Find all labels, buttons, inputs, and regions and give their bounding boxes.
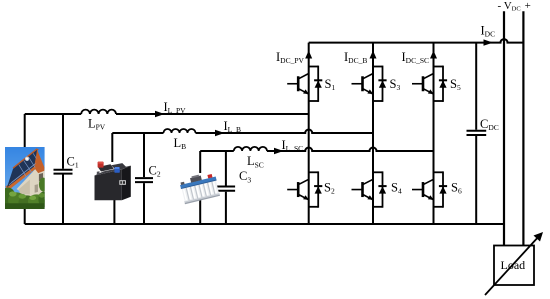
- svg-text:IDC: IDC: [481, 23, 496, 38]
- svg-text:S5: S5: [450, 77, 461, 92]
- wire left PV vertical: [24, 114, 26, 224]
- inductor L_B: [164, 129, 196, 133]
- svg-text:S1: S1: [325, 77, 336, 92]
- battery photo: [95, 162, 131, 201]
- svg-text:IDC_B: IDC_B: [344, 50, 367, 65]
- arrow I_L_SC: [274, 148, 284, 154]
- svg-text:CDC: CDC: [480, 117, 499, 132]
- wire PV top line: [25, 113, 309, 115]
- inductor L_SC: [234, 147, 267, 151]
- wire leg 2: [372, 43, 374, 224]
- svg-text:C1: C1: [67, 155, 79, 170]
- PV panel photo: [0, 147, 49, 209]
- wire leg 1: [308, 43, 310, 224]
- wire top bus: [309, 39, 524, 43]
- wire supercap top: [199, 151, 201, 173]
- transistor S1: [287, 66, 322, 102]
- arrow I_L_B: [215, 130, 225, 136]
- svg-text:Load: Load: [501, 258, 526, 272]
- svg-text:S3: S3: [390, 77, 401, 92]
- inductor L_PV: [81, 110, 116, 114]
- svg-text:S4: S4: [391, 181, 402, 196]
- arrow I_L_PV: [155, 111, 165, 117]
- svg-text:LSC: LSC: [247, 154, 264, 169]
- wire DC- rail: [503, 11, 505, 245]
- svg-text:IL_PV: IL_PV: [164, 100, 187, 115]
- transistor S4: [352, 171, 387, 207]
- wire bottom bus: [25, 223, 504, 225]
- wire DC+ rail: [522, 11, 524, 245]
- svg-text:LB: LB: [174, 136, 187, 151]
- svg-text:LPV: LPV: [88, 117, 106, 132]
- capacitor C_DC branch wire: [475, 43, 477, 224]
- svg-text:C2: C2: [149, 163, 161, 178]
- transistor S2: [287, 171, 322, 207]
- capacitor C1 branch wire: [62, 114, 64, 224]
- transistor S3: [352, 66, 387, 102]
- svg-text:IDC_SC: IDC_SC: [402, 50, 430, 65]
- wire leg 3: [433, 43, 435, 224]
- arrow I_DC: [484, 39, 494, 45]
- capacitor C3: [217, 187, 235, 191]
- arrow I_DC_PV: [305, 51, 312, 59]
- wire battery bottom: [113, 199, 115, 224]
- svg-text:S6: S6: [451, 181, 462, 196]
- transistor S6: [412, 171, 447, 207]
- wire battery top: [111, 133, 113, 162]
- svg-text:IDC_PV: IDC_PV: [276, 50, 305, 65]
- svg-text:IL_SC: IL_SC: [282, 138, 304, 153]
- transistor S5: [412, 66, 447, 102]
- wire supercap bottom: [199, 200, 201, 224]
- svg-text:C3: C3: [239, 169, 251, 184]
- supercapacitor photo: [179, 171, 221, 204]
- capacitor C2: [135, 178, 153, 182]
- wire B line: [112, 130, 373, 134]
- svg-text:IL_B: IL_B: [224, 119, 242, 134]
- arrow I_DC_B: [370, 51, 377, 59]
- svg-text:- VDC +: - VDC +: [498, 0, 531, 13]
- capacitor C2 branch wire: [143, 133, 145, 224]
- load arrow: [485, 235, 541, 296]
- load box: [494, 246, 534, 286]
- capacitor C_DC: [467, 131, 487, 135]
- capacitor C3 branch wire: [225, 151, 227, 224]
- wire SC line: [200, 148, 433, 151]
- svg-text:S2: S2: [324, 181, 335, 196]
- arrow I_DC_SC: [430, 51, 437, 59]
- capacitor C1: [54, 170, 73, 174]
